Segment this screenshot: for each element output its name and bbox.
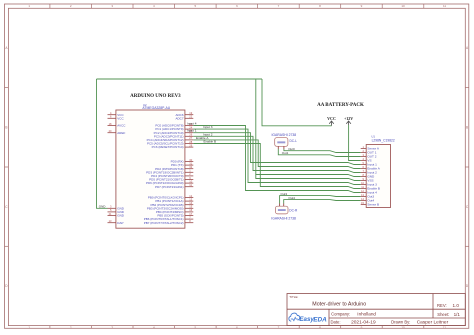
svg-text:10: 10: [401, 326, 405, 330]
wire Out4 M2 right pin to U1 Out4: [284, 200, 361, 204]
svg-text:Input 3: Input 3: [367, 183, 377, 187]
svg-text:10: 10: [401, 4, 405, 8]
U1 pin 5 Input 1: [361, 161, 377, 167]
svg-text:TITLE:: TITLE:: [289, 295, 298, 299]
svg-text:IGARASHI 2738: IGARASHI 2738: [271, 133, 296, 137]
svg-text:1/1: 1/1: [454, 312, 461, 317]
svg-text:AA BATTERY-PACK: AA BATTERY-PACK: [317, 103, 364, 108]
svg-text:AVCC: AVCC: [117, 124, 126, 128]
U2 pin 8 PB7: [144, 219, 194, 225]
wire Out0 M1 right pin to U1 OUT1: [284, 149, 361, 153]
svg-text:AREF: AREF: [117, 131, 125, 135]
U2 pin 16 PB4: [156, 208, 193, 214]
svg-text:Inholland: Inholland: [357, 311, 376, 316]
U2 pin 5 GND: [108, 208, 125, 214]
U1 pin 9 VSS: [361, 177, 374, 183]
U1 pin 14 Out4: [361, 197, 375, 203]
svg-text:Out0: Out0: [288, 147, 295, 151]
svg-text:DAP: DAP: [117, 221, 123, 225]
wire VCC branch to power flag: [262, 79, 332, 126]
U1 pin 6 Enable A: [361, 165, 381, 171]
svg-text:OUT 2: OUT 2: [367, 155, 376, 159]
ruler column ticks and numbers: [50, 4, 424, 328]
svg-text:11: 11: [443, 326, 446, 330]
wire Out3 M2 left pin to U1 Out3: [280, 196, 361, 204]
U2 pin 24 PC1: [155, 125, 193, 131]
U1 pin 1 Sense A: [361, 145, 380, 151]
U2 pin 18 AVCC: [108, 122, 127, 128]
svg-text:11: 11: [443, 4, 446, 8]
U2 pin 31 PD1: [171, 161, 193, 167]
motor M2 pin stubs: [279, 204, 281, 207]
svg-text:Company:: Company:: [331, 311, 350, 316]
U2 pin 29 PC6: [152, 143, 194, 149]
svg-text:Enable B: Enable B: [367, 187, 380, 191]
svg-text:Out4: Out4: [288, 196, 295, 200]
svg-text:Sense B: Sense B: [367, 203, 379, 207]
U2 pin 20 AREF: [108, 129, 126, 135]
U2 pin 9 PD5: [149, 176, 193, 182]
U2 pin 19 ADC6: [175, 111, 193, 117]
svg-text:PC6 (RESET/PCINT14): PC6 (RESET/PCINT14): [152, 145, 184, 149]
ruler row ticks and letters: [5, 88, 469, 247]
title block divider lines: [287, 308, 465, 310]
svg-text:Out3: Out3: [281, 192, 288, 196]
svg-text:Drawn By:: Drawn By:: [391, 319, 410, 324]
wire Enable B: [193, 144, 360, 189]
wire Out1 M1 left pin to U1 OUT2: [278, 149, 360, 157]
svg-text:1.0: 1.0: [453, 303, 460, 308]
svg-text:Out3: Out3: [367, 195, 374, 199]
svg-text:B: B: [466, 126, 468, 130]
svg-text:Date:: Date:: [331, 319, 341, 324]
U1 pin 12 Input 4: [361, 189, 377, 195]
U2 pin 22 ADC7: [175, 115, 193, 121]
svg-text:GND: GND: [367, 175, 375, 179]
svg-text:Input 1: Input 1: [367, 163, 377, 167]
IC U2 ATMEGA328P-AU body: [116, 110, 185, 228]
wire Enable A: [193, 140, 360, 169]
wire +12V to U1 VS: [349, 125, 361, 161]
svg-text:Enable A: Enable A: [367, 167, 380, 171]
svg-text:GND: GND: [117, 214, 125, 218]
svg-text:Out1: Out1: [282, 151, 289, 155]
svg-text:VS: VS: [367, 159, 371, 163]
U2 pin 10 PD6: [146, 179, 193, 185]
U2 pin 13 PB1: [155, 197, 193, 203]
svg-text:Enable B: Enable B: [204, 140, 217, 144]
svg-text:Easy: Easy: [299, 316, 314, 323]
svg-text:Input 3: Input 3: [203, 125, 213, 129]
svg-text:VCC: VCC: [117, 116, 124, 120]
wire Input 1: [193, 133, 360, 165]
svg-text:DC-R: DC-R: [289, 208, 298, 212]
svg-text:ADC7: ADC7: [175, 116, 183, 120]
svg-text:Casper Leitner: Casper Leitner: [417, 320, 449, 326]
svg-text:Input 1: Input 1: [187, 129, 197, 133]
U2 pin 3 GND: [108, 205, 125, 211]
svg-text:PB7 (PCINT7/XTAL2/TOSC2): PB7 (PCINT7/XTAL2/TOSC2): [144, 221, 184, 225]
svg-text:2021-04-19: 2021-04-19: [351, 320, 376, 326]
wire GND drop to U1: [256, 79, 361, 177]
U1 pin 11 Enable B: [361, 185, 380, 191]
U1 pin 13 Out3: [361, 193, 375, 199]
U1 pin 15 Sense B: [361, 201, 379, 207]
U2 pin 28 PC5: [147, 140, 193, 146]
svg-text:DC-L: DC-L: [290, 139, 298, 143]
U1 pin 3 OUT 2: [361, 153, 377, 159]
U2 pin 26 PC3: [154, 133, 193, 139]
wire Input 3: [193, 129, 360, 184]
U2 pin 17 PB5: [157, 212, 193, 218]
U2 pin 4 VCC: [108, 111, 125, 117]
svg-text:Sheet:: Sheet:: [437, 312, 449, 317]
wire Input 4: [193, 126, 360, 193]
U2 pin 14 PB2: [150, 201, 193, 207]
svg-text:PD7 (PCINT23/AIN1): PD7 (PCINT23/AIN1): [155, 185, 184, 189]
U2 pin 32 PD2: [155, 165, 193, 171]
IC U1 L298N body: [366, 145, 390, 208]
U1 pin 10 Input 3: [361, 181, 377, 187]
U2 pin 15 PB3: [147, 205, 193, 211]
EasyEDA logo: [289, 313, 300, 321]
U2 pin 12 PB0: [148, 194, 193, 200]
U2 pin 21 GND: [108, 212, 125, 218]
motor M1 DC-L body: [275, 138, 288, 147]
svg-text:Moter-driver to Arduino: Moter-driver to Arduino: [312, 302, 366, 308]
svg-text:IGARASHI 2738: IGARASHI 2738: [271, 217, 296, 221]
U1 pin 4 VS: [361, 157, 372, 163]
U2 pin 30 PD0: [171, 158, 194, 164]
U2 pin 1 PD3: [146, 169, 193, 175]
U1 pin 7 Input 2: [361, 169, 377, 175]
svg-text:Input 2: Input 2: [367, 171, 377, 175]
svg-text:VSS: VSS: [367, 179, 373, 183]
wire VSS branch: [256, 175, 361, 181]
svg-text:Sense A: Sense A: [367, 147, 379, 151]
motor M1 pin stubs: [277, 146, 279, 149]
motor M2 DC-R body: [276, 206, 289, 214]
title block border: [287, 294, 465, 326]
svg-text:Out4: Out4: [367, 199, 374, 203]
wire GND from U2 pin3 to left rail: [97, 79, 108, 208]
svg-text:Input 4: Input 4: [187, 122, 197, 126]
svg-text:REV:: REV:: [437, 303, 447, 308]
U1 pin 2 OUT 1: [361, 149, 377, 155]
U2 pin 11 PD7: [155, 183, 193, 189]
U2 pin 6 VCC: [108, 115, 125, 121]
svg-text:B: B: [5, 126, 7, 130]
U2 pin 13 DAP: [108, 219, 124, 225]
svg-text:OUT 1: OUT 1: [367, 151, 376, 155]
U2 pin 25 PC2: [154, 129, 194, 135]
svg-text:Input 4: Input 4: [367, 191, 377, 195]
U1 pin 8 GND: [361, 173, 375, 179]
svg-text:ATMEGA328P-AU: ATMEGA328P-AU: [142, 106, 170, 110]
U2 pin 7 PB6: [144, 215, 194, 221]
wire Input 2: [193, 136, 360, 172]
U2 pin 23 PC0: [155, 122, 193, 128]
U2 pin 27 PC4: [147, 136, 194, 142]
svg-text:L298N_C19822: L298N_C19822: [372, 138, 395, 142]
svg-text:EDA: EDA: [313, 316, 327, 323]
U2 pin 2 PD4: [151, 172, 193, 178]
wire GND top rail: [97, 78, 263, 80]
svg-text:GND: GND: [99, 204, 107, 208]
svg-text:ARDUINO UNO REV3: ARDUINO UNO REV3: [130, 94, 181, 99]
